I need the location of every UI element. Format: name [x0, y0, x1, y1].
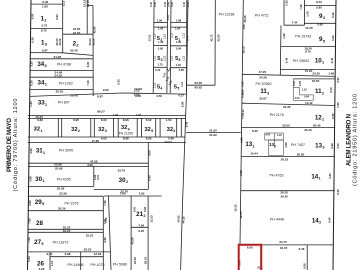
svg-text:7.06: 7.06: [86, 80, 90, 86]
svg-text:1.42: 1.42: [306, 11, 310, 17]
svg-text:0.40: 0.40: [163, 1, 167, 7]
5 strip inner right vertical: [169, 0, 172, 93]
svg-text:13.42: 13.42: [305, 101, 313, 105]
svg-text:7.60: 7.60: [28, 218, 32, 224]
svg-text:0.40: 0.40: [149, 1, 153, 7]
parcel 21_2 right vertical: [147, 196, 149, 270]
svg-text:24.52: 24.52: [55, 74, 63, 78]
svg-text:5.75: 5.75: [41, 24, 47, 28]
svg-text:6.92: 6.92: [336, 77, 340, 83]
svg-text:62.45: 62.45: [70, 49, 78, 53]
svg-text:0.40: 0.40: [170, 1, 174, 7]
svg-text:PH 15743: PH 15743: [295, 35, 311, 39]
parcel 31 bottom line: [28, 162, 148, 164]
svg-text:25.58: 25.58: [57, 187, 65, 191]
5 strip row line a left: [154, 22, 168, 24]
11 cluster bottom line: [293, 99, 313, 101]
svg-text:PH 5086: PH 5086: [113, 263, 127, 267]
svg-text:33.39: 33.39: [59, 192, 67, 196]
svg-text:1.60: 1.60: [328, 72, 334, 76]
svg-text:6.25: 6.25: [138, 229, 144, 233]
parcel 33 top boundary polyline: [30, 93, 186, 96]
svg-text:4.56: 4.56: [156, 94, 162, 98]
svg-text:8.96: 8.96: [184, 121, 188, 127]
svg-text:5.80: 5.80: [328, 173, 332, 179]
parcel 1_1 / 2_1 divider vertical: [86, 0, 88, 34]
svg-text:5.90: 5.90: [132, 206, 136, 212]
svg-text:14.26: 14.26: [305, 26, 313, 30]
svg-text:5.96: 5.96: [143, 206, 147, 212]
svg-text:4.04: 4.04: [265, 133, 271, 137]
parcel 30_2 bottom line: [94, 188, 149, 190]
svg-text:9.43: 9.43: [47, 252, 53, 256]
svg-text:42.72: 42.72: [210, 34, 214, 41]
svg-text:12.63: 12.63: [94, 252, 102, 256]
svg-text:9.05: 9.05: [31, 13, 35, 19]
svg-text:1.12: 1.12: [170, 32, 173, 37]
11 cluster east vertical: [312, 95, 314, 100]
svg-text:PH 4721: PH 4721: [255, 13, 269, 17]
32 row divider g: [136, 118, 138, 137]
svg-text:12.02: 12.02: [147, 34, 151, 41]
svg-text:22.87: 22.87: [259, 97, 267, 101]
svg-text:PH 2376: PH 2376: [65, 201, 79, 205]
parcel 1_2 / 1_3 divider: [31, 28, 63, 30]
svg-text:6.98: 6.98: [65, 252, 71, 256]
svg-text:5.82: 5.82: [317, 23, 323, 27]
svg-text:0.94: 0.94: [304, 96, 309, 99]
svg-text:PH 11873: PH 11873: [53, 240, 69, 244]
svg-text:24.50: 24.50: [133, 257, 137, 264]
svg-text:1.90: 1.90: [176, 40, 182, 44]
svg-text:28: 28: [36, 220, 43, 227]
svg-text:6.82: 6.82: [146, 137, 152, 141]
svg-text:1.38: 1.38: [158, 40, 164, 44]
5 strip row line b right: [170, 26, 186, 28]
5 strip inner left vertical: [166, 0, 169, 93]
parcel 9 cluster left vertical upper: [283, 0, 285, 25]
parcel 11 row bottom line: [242, 103, 335, 105]
5 strip row line b left: [154, 26, 168, 28]
svg-text:PH 1263: PH 1263: [59, 81, 73, 85]
svg-text:5.96: 5.96: [336, 102, 340, 108]
32 row divider l: [180, 118, 182, 137]
svg-text:7.60: 7.60: [120, 192, 126, 196]
svg-text:1.12: 1.12: [183, 32, 186, 37]
parcel 29-27 right edge vertical: [102, 196, 104, 270]
parcel 14_1 bottom line: [241, 190, 335, 192]
parcel 29 bottom line: [28, 210, 104, 212]
svg-text:1.12: 1.12: [154, 33, 157, 38]
svg-text:16.55: 16.55: [312, 79, 320, 83]
svg-text:20.50: 20.50: [282, 124, 290, 128]
svg-text:34.36: 34.36: [283, 105, 291, 109]
svg-text:0.40: 0.40: [182, 1, 186, 7]
parcel 2 34 column right edge: [92, 6, 94, 97]
svg-text:2.05: 2.05: [299, 80, 302, 85]
svg-text:PH 807: PH 807: [58, 100, 70, 104]
bottom row divider vertical: [306, 245, 308, 270]
5 strip row line e right: [170, 67, 186, 69]
svg-text:43.05: 43.05: [73, 31, 81, 35]
svg-text:1.12: 1.12: [302, 88, 308, 92]
svg-text:0.40: 0.40: [166, 1, 170, 7]
bottom row line right of red box: [261, 244, 333, 246]
svg-text:1.50: 1.50: [166, 118, 172, 122]
svg-text:9.87: 9.87: [42, 49, 48, 53]
svg-text:8.98: 8.98: [87, 163, 93, 167]
parcel 9 cluster left vertical lower: [279, 25, 282, 75]
svg-text:PH 1073: PH 1073: [91, 263, 105, 267]
svg-text:8.90: 8.90: [55, 14, 59, 20]
parcel 9_3 top line: [304, 5, 335, 7]
interior cross line lower: [186, 132, 241, 134]
svg-text:5.80: 5.80: [158, 47, 164, 51]
parcel 26 sub line: [50, 256, 103, 258]
svg-text:1.98: 1.98: [176, 19, 182, 23]
svg-text:PH 20963: PH 20963: [256, 82, 272, 86]
top notch line: [87, 5, 93, 7]
svg-text:26.42: 26.42: [280, 195, 288, 199]
svg-text:1.10: 1.10: [50, 260, 54, 266]
parcel 30_1 bottom line: [28, 185, 94, 187]
PH 5086 strip left vertical: [130, 196, 132, 270]
parcel 30 row top line: [28, 165, 148, 167]
svg-text:6.30: 6.30: [30, 80, 34, 86]
svg-text:12.98: 12.98: [134, 87, 142, 91]
svg-text:33.29: 33.29: [58, 206, 66, 210]
parcel 9_3 left vertical: [303, 0, 305, 25]
11 cluster upper horizontal: [293, 86, 299, 88]
svg-text:8.98: 8.98: [180, 101, 184, 107]
svg-text:(Código: 79700) Altura: 1200: (Código: 79700) Altura: 1200: [13, 99, 19, 192]
parcel 10 bottom line upper: [280, 69, 335, 71]
svg-text:33.76: 33.76: [118, 169, 126, 173]
parcel 31/30 right edge vertical: [147, 143, 149, 190]
svg-text:40.02: 40.02: [58, 38, 62, 45]
svg-text:12.53: 12.53: [150, 215, 154, 222]
svg-text:43.58: 43.58: [131, 237, 135, 244]
svg-text:8.06: 8.06: [302, 263, 306, 269]
svg-text:1.12: 1.12: [167, 14, 170, 19]
svg-text:1.30: 1.30: [136, 113, 142, 117]
svg-text:PH 4295: PH 4295: [57, 177, 71, 181]
svg-text:60.62: 60.62: [195, 86, 203, 90]
boundary street line right (Alem Leandro N frontage): [333, 0, 336, 270]
13 middle cluster box lower: [269, 140, 284, 156]
parcel 31 row top line: [28, 142, 186, 144]
svg-text:36.26: 36.26: [92, 38, 96, 45]
svg-text:6.02: 6.02: [146, 118, 152, 122]
svg-text:3.65: 3.65: [242, 24, 246, 30]
svg-text:8.43: 8.43: [316, 0, 322, 4]
svg-text:9.90: 9.90: [103, 88, 109, 92]
svg-text:6.92: 6.92: [331, 12, 335, 18]
svg-text:24.28: 24.28: [54, 55, 62, 59]
PH 14568 right divider: [80, 252, 82, 270]
svg-text:1.12: 1.12: [170, 55, 173, 60]
svg-text:PH 7407: PH 7407: [291, 143, 305, 147]
svg-text:2.10: 2.10: [329, 87, 333, 93]
svg-text:6.90: 6.90: [241, 113, 245, 119]
svg-text:6.32: 6.32: [239, 170, 243, 176]
32 row divider k: [176, 118, 178, 137]
svg-text:43.30: 43.30: [216, 34, 220, 41]
5 strip far left vertical: [152, 0, 155, 93]
svg-text:47.80: 47.80: [92, 139, 100, 143]
svg-text:6.02: 6.02: [101, 137, 107, 141]
5 strip row line c right: [170, 45, 186, 47]
parcel 1_3 bottom line: [31, 52, 63, 54]
svg-text:26.52: 26.52: [281, 157, 289, 161]
parcel 32 row bottom line: [28, 136, 186, 138]
svg-text:6.96: 6.96: [240, 137, 244, 143]
svg-text:6.00: 6.00: [247, 246, 253, 250]
svg-text:8.96: 8.96: [123, 137, 129, 141]
svg-text:16.32: 16.32: [234, 204, 238, 211]
svg-text:4.17: 4.17: [178, 94, 184, 98]
svg-text:6.43: 6.43: [284, 57, 288, 63]
parcel 27 bottom line: [28, 251, 110, 253]
svg-text:6.45: 6.45: [330, 57, 334, 63]
svg-text:7.95: 7.95: [139, 192, 145, 196]
svg-text:(Código: 21950) Altura: 1200: (Código: 21950) Altura: 1200: [353, 94, 359, 186]
parcel 34_3 top line: [30, 58, 93, 60]
svg-text:34.36: 34.36: [259, 76, 267, 80]
svg-text:4.88: 4.88: [29, 176, 33, 182]
svg-text:7.85: 7.85: [104, 217, 108, 223]
svg-text:7.90: 7.90: [103, 200, 107, 206]
svg-text:36.26: 36.26: [243, 15, 247, 22]
parcel 13 row bottom line: [241, 156, 335, 158]
svg-text:PH 21265: PH 21265: [119, 132, 133, 136]
svg-text:43.92: 43.92: [176, 215, 180, 222]
svg-text:7.06: 7.06: [27, 237, 31, 243]
parcel 34_1 top line: [30, 76, 93, 78]
parcel 2_2 top line: [63, 33, 93, 35]
svg-text:12.02: 12.02: [164, 140, 172, 144]
svg-text:42.90: 42.90: [92, 26, 96, 33]
svg-text:33.23: 33.23: [86, 233, 94, 237]
svg-text:3.22: 3.22: [330, 143, 334, 149]
parcel 26 right divider: [49, 252, 51, 270]
svg-text:PH 4763: PH 4763: [270, 173, 284, 177]
svg-text:26.48: 26.48: [70, 93, 78, 97]
svg-text:12.10: 12.10: [86, 0, 90, 7]
parcel 10 top line: [281, 46, 336, 48]
parcel 1_2 top line: [31, 3, 63, 5]
svg-text:8.25: 8.25: [252, 129, 258, 133]
svg-text:34.75: 34.75: [279, 240, 287, 244]
13 middle cluster box upper: [265, 133, 284, 140]
svg-text:1.40: 1.40: [176, 63, 182, 67]
svg-text:3.90: 3.90: [28, 200, 32, 206]
svg-text:8.96: 8.96: [123, 118, 129, 122]
svg-text:5.23: 5.23: [27, 256, 31, 262]
svg-text:6.38: 6.38: [31, 37, 35, 43]
svg-text:PH 4448: PH 4448: [270, 217, 284, 221]
svg-text:15.20: 15.20: [305, 69, 313, 73]
svg-text:3.62: 3.62: [293, 80, 296, 85]
svg-text:9.40: 9.40: [42, 0, 48, 4]
svg-text:26.40: 26.40: [313, 124, 321, 128]
svg-text:1.30: 1.30: [113, 113, 119, 117]
svg-text:17.26: 17.26: [259, 70, 267, 74]
svg-text:9.66: 9.66: [135, 94, 141, 98]
svg-text:28.19: 28.19: [143, 257, 147, 264]
5 strip row line a right: [170, 22, 186, 24]
svg-text:1.92: 1.92: [175, 26, 181, 30]
5 strip row line c left: [153, 45, 167, 47]
svg-text:8.75: 8.75: [41, 29, 47, 33]
svg-text:3.22: 3.22: [336, 143, 340, 149]
vertical strip line right of 29 rows: [109, 196, 112, 270]
svg-text:4.96: 4.96: [284, 142, 288, 148]
parcel 28 bottom line: [28, 228, 104, 230]
32 row divider e: [112, 118, 114, 137]
interior long vertical west: [181, 0, 188, 270]
svg-text:1.12: 1.12: [181, 81, 184, 86]
svg-text:1.90: 1.90: [158, 26, 164, 30]
32 row divider f: [117, 118, 119, 137]
svg-text:86.27: 86.27: [97, 110, 105, 114]
parcel 21_2 bottom line: [131, 226, 148, 228]
svg-text:3.90: 3.90: [241, 81, 245, 87]
svg-text:PH 19603: PH 19603: [293, 59, 309, 63]
svg-text:8.46: 8.46: [336, 189, 340, 195]
parcel 11 inner top line: [294, 78, 336, 80]
svg-text:36.56: 36.56: [242, 46, 246, 53]
svg-text:6.82: 6.82: [37, 118, 43, 122]
parcel 29 top line: [28, 195, 104, 197]
svg-text:34.55: 34.55: [312, 72, 320, 76]
svg-text:6.90: 6.90: [241, 92, 245, 98]
svg-text:20.80: 20.80: [297, 152, 305, 156]
5 strip funnel right: [169, 68, 171, 72]
32 row divider i: [155, 118, 157, 137]
svg-text:7.44: 7.44: [291, 20, 297, 24]
svg-text:33.23: 33.23: [84, 248, 92, 252]
svg-text:3.96: 3.96: [103, 237, 107, 243]
lot 21 area top line: [104, 195, 162, 197]
svg-text:12.55: 12.55: [239, 211, 243, 218]
svg-text:21.62: 21.62: [209, 128, 217, 132]
svg-text:21.92: 21.92: [209, 133, 217, 137]
svg-text:7.94: 7.94: [138, 223, 144, 227]
svg-text:6.95: 6.95: [73, 118, 79, 122]
parcel 9_5 top line left: [284, 24, 304, 26]
svg-text:6.40: 6.40: [148, 175, 152, 181]
11 cluster mid vertical: [299, 87, 301, 95]
svg-text:33.23: 33.23: [63, 229, 71, 233]
boundary street line left (Primero de Mayo frontage): [28, 0, 32, 270]
interior connector line: [187, 84, 216, 86]
32 row divider j: [159, 118, 161, 137]
svg-text:44.15: 44.15: [182, 216, 186, 223]
svg-text:8.87: 8.87: [97, 94, 103, 98]
svg-text:6.50: 6.50: [117, 79, 121, 85]
svg-text:1.12: 1.12: [183, 55, 186, 60]
svg-text:PH 14568: PH 14568: [68, 263, 84, 267]
parcel 1 column right edge: [62, 0, 64, 53]
svg-text:1.40: 1.40: [277, 133, 283, 137]
svg-text:4.50: 4.50: [148, 150, 152, 156]
parcel 2_2 bottom line: [63, 53, 93, 56]
5 strip funnel left: [167, 67, 169, 71]
svg-text:4.04: 4.04: [295, 97, 300, 100]
5 strip far right vertical: [186, 0, 188, 93]
svg-text:47.06: 47.06: [90, 159, 98, 163]
svg-text:PH 11938: PH 11938: [219, 13, 235, 17]
svg-text:1.66: 1.66: [282, 33, 286, 39]
svg-text:8.70: 8.70: [305, 50, 311, 54]
svg-text:PH 4788: PH 4788: [57, 63, 71, 67]
svg-text:6.90: 6.90: [331, 113, 335, 119]
svg-text:ALEM LEANDRO N: ALEM LEANDRO N: [346, 114, 353, 166]
32 row divider a: [57, 118, 59, 137]
svg-text:6.90: 6.90: [331, 35, 335, 41]
svg-text:PH 3045: PH 3045: [59, 148, 73, 152]
svg-text:25.05: 25.05: [56, 89, 64, 93]
interior vertical PH 11938 west: [214, 0, 216, 85]
svg-text:7.29: 7.29: [299, 4, 303, 10]
parcel 11 row top line: [242, 74, 335, 76]
svg-text:1.12: 1.12: [154, 55, 157, 60]
parcel 34_3 bottom line: [30, 70, 93, 72]
svg-text:5.79: 5.79: [155, 68, 161, 72]
right column west boundary vertical: [240, 0, 243, 245]
svg-text:0.40: 0.40: [153, 1, 157, 7]
svg-text:1.75: 1.75: [157, 63, 163, 67]
svg-text:5.80: 5.80: [316, 6, 322, 10]
svg-text:1.12: 1.12: [154, 82, 157, 87]
svg-text:5.90: 5.90: [176, 47, 182, 51]
32 row divider b: [61, 118, 63, 137]
13 middle cluster divider: [274, 133, 276, 148]
svg-text:1.96: 1.96: [157, 19, 163, 23]
svg-text:3.10: 3.10: [96, 174, 100, 180]
svg-text:0.29: 0.29: [285, 0, 289, 6]
parcel 27 top line: [28, 231, 104, 233]
svg-text:16.37: 16.37: [280, 246, 288, 250]
svg-text:1.12: 1.12: [164, 55, 167, 60]
svg-text:25.98: 25.98: [55, 167, 63, 171]
32 row divider c: [90, 118, 92, 137]
svg-text:8.40: 8.40: [328, 217, 332, 223]
svg-text:3.20: 3.20: [30, 61, 34, 67]
32 row divider d: [93, 118, 95, 137]
parcel 9_3 bottom line: [304, 22, 335, 24]
5 strip row line e left: [153, 66, 167, 68]
svg-text:8.90: 8.90: [86, 61, 90, 67]
svg-text:2.11: 2.11: [62, 0, 66, 6]
svg-text:1.80: 1.80: [42, 4, 48, 8]
svg-text:3.80: 3.80: [29, 148, 33, 154]
svg-text:1.25: 1.25: [29, 101, 33, 107]
highlighted parcel outline red: [239, 245, 262, 270]
11 cluster west vertical: [292, 79, 294, 100]
11 cluster mid horizontal: [300, 94, 314, 96]
svg-text:10.44: 10.44: [250, 152, 258, 156]
svg-text:1.12: 1.12: [164, 33, 167, 38]
32 row divider h: [140, 118, 142, 137]
svg-text:26.40: 26.40: [304, 128, 312, 132]
svg-text:6.02: 6.02: [101, 118, 107, 122]
parcel 34_1 bottom line: [30, 89, 93, 91]
svg-text:PH 2176: PH 2176: [270, 113, 284, 117]
svg-text:5.86: 5.86: [179, 68, 185, 72]
svg-text:8.46: 8.46: [299, 247, 305, 251]
